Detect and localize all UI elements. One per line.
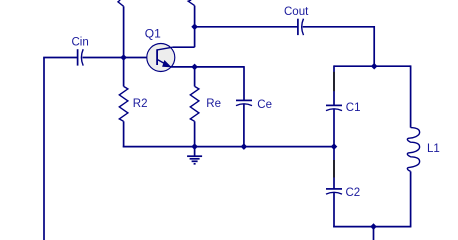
node: emitter/Re junction dot — [191, 64, 198, 71]
capacitor C2 — [326, 189, 342, 194]
svg-text:L1: L1 — [427, 143, 440, 155]
wire: Ce bottom vertical to ground rail — [243, 104, 245, 147]
wire: vertical from Cout corner down to tank top — [373, 26, 375, 66]
wire: left input vertical rail — [43, 58, 45, 240]
resistor (partial, top right collector resistor) — [188, 0, 194, 6]
node: tank top junction dot — [371, 63, 378, 70]
node: tank bottom junction dot — [370, 223, 377, 230]
wire: collector vertical rail — [194, 6, 196, 48]
wire: tank bottom horizontal — [333, 226, 411, 228]
svg-text:Cout: Cout — [284, 6, 309, 18]
wire: tank top horizontal — [334, 65, 411, 67]
capacitor C1 — [326, 105, 342, 110]
inductor L1 — [407, 128, 419, 172]
svg-text:C1: C1 — [346, 102, 361, 114]
svg-text:Q1: Q1 — [145, 27, 161, 41]
wire: black repaint segment above C1 — [333, 72, 335, 91]
wire: C2 top vertical — [333, 147, 335, 189]
ground — [187, 147, 202, 164]
wire: base wire into transistor — [124, 57, 158, 59]
wire: black repaint segment above C2 — [333, 160, 335, 178]
wire: L1 bottom vertical — [410, 171, 412, 226]
wire: Re top vertical — [194, 67, 196, 87]
svg-text:Ce: Ce — [257, 99, 272, 111]
wire: C2 bottom vertical — [333, 193, 335, 228]
wire: L1 top vertical — [410, 65, 412, 127]
node: Ce bottom dot — [241, 143, 248, 150]
wire: C1 top vertical — [333, 65, 335, 105]
svg-text:C2: C2 — [346, 187, 361, 199]
wire: vertical rail from top resistor through base node to R2 — [123, 6, 125, 86]
resistor (partial, top left bias resistor) — [118, 0, 124, 6]
svg-text:Cin: Cin — [72, 37, 89, 49]
node: ground rail / Re dot — [191, 143, 198, 150]
node: collector/Cout junction dot — [191, 24, 198, 31]
wire: input horizontal to Cin left plate — [43, 57, 77, 59]
wire: Cin right plate to base node — [82, 57, 123, 59]
capacitor Ce — [236, 100, 252, 105]
node: base junction dot — [120, 54, 127, 61]
svg-text:Re: Re — [206, 98, 221, 110]
node: C1/C2 junction dot — [331, 143, 338, 150]
wire: Re bottom to ground rail — [194, 121, 196, 146]
wire: C1 bottom vertical to ground rail — [333, 109, 335, 147]
transistor Q1 — [147, 44, 175, 72]
wire: Cout right plate to corner — [303, 26, 375, 28]
resistor R2 — [119, 86, 128, 121]
wire: R2 bottom to ground rail — [123, 121, 125, 147]
wire: collector horizontal to rail — [173, 46, 195, 48]
capacitor Cin — [78, 49, 84, 65]
resistor Re — [190, 86, 199, 121]
wire: emitter horizontal rail — [171, 66, 245, 68]
wire: Ce top vertical — [243, 66, 245, 100]
capacitor Cout — [298, 19, 304, 35]
svg-text:R2: R2 — [133, 98, 148, 110]
wire: ground rail horizontal — [123, 146, 334, 148]
wire: stub below tank bottom junction — [373, 227, 375, 240]
wire: junction to Cout left plate — [195, 26, 298, 28]
